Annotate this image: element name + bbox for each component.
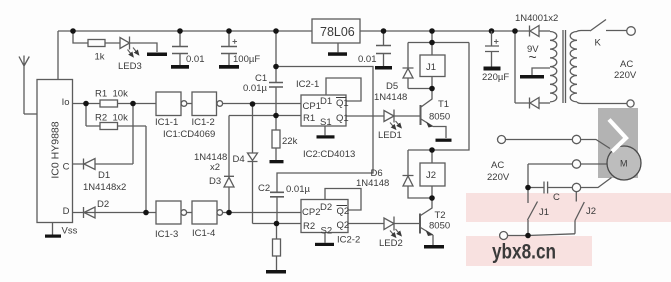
svg-text:IC1:CD4069: IC1:CD4069 — [163, 129, 215, 140]
terminal AC bottom circle — [627, 100, 634, 107]
svg-text:T2: T2 — [435, 210, 446, 221]
node rail-C1 — [273, 28, 279, 34]
node VDD-C1 — [273, 64, 279, 70]
svg-text:M: M — [620, 159, 628, 169]
wire rail to J1 node — [431, 31, 433, 43]
wire Io line — [73, 103, 157, 105]
svg-text:IC2-2: IC2-2 — [337, 235, 360, 246]
svg-text:8050: 8050 — [429, 221, 450, 232]
svg-text:D2: D2 — [320, 202, 332, 213]
capacitor C2 — [270, 192, 284, 197]
node rail-cap1 — [177, 28, 183, 34]
svg-text:CP1: CP1 — [303, 101, 321, 112]
wire top rail right of regulator — [360, 30, 529, 32]
diode D2 — [84, 207, 96, 218]
wire bottom row — [508, 234, 575, 236]
wire C1 bottom to R1 line — [275, 88, 277, 116]
watermark grey box — [598, 108, 638, 178]
terminal motor row2 — [572, 160, 580, 168]
wire IC0 Vss stub — [52, 223, 54, 235]
svg-text:Q2: Q2 — [337, 206, 350, 217]
ground Vss — [45, 235, 61, 238]
node T2 collector — [429, 195, 435, 201]
wire J2 stubs — [431, 150, 433, 198]
svg-text:J1: J1 — [426, 62, 436, 73]
wire row3 cap C — [528, 178, 612, 188]
ground LED3 — [147, 53, 167, 57]
node R2-22k — [274, 221, 280, 227]
wire D4 drop — [252, 104, 254, 224]
capacitor 220uF plus — [494, 39, 499, 43]
wire bottom bridge diode to coil — [539, 102, 550, 104]
wire LED3 to ground — [130, 43, 158, 52]
capacitor 0.01 no.2 — [376, 46, 391, 54]
wire primary bottom to terminal — [577, 102, 627, 104]
ground 22k upper — [270, 160, 284, 163]
node rail-220uF — [489, 28, 495, 34]
svg-text:Q2: Q2 — [337, 220, 350, 231]
svg-text:0.01µ: 0.01µ — [286, 184, 310, 195]
inverter IC1-3 — [156, 201, 181, 224]
inverter IC1-2 — [192, 92, 217, 116]
wire bridge left drop — [515, 31, 529, 103]
wire center tap to ground — [532, 68, 550, 75]
watermark pink band bottom — [466, 236, 592, 266]
wire cap 100uF — [228, 31, 230, 65]
svg-text:Q1: Q1 — [336, 113, 349, 124]
wire right drop to J2 — [432, 43, 469, 151]
wire J1 top line — [408, 42, 469, 44]
svg-text:IC1-2: IC1-2 — [192, 117, 215, 128]
wire VDD link rectangle to C2 — [276, 67, 373, 193]
terminal K circle — [627, 27, 636, 36]
LED2 arrows — [390, 231, 396, 238]
inverter IC1-1 — [156, 92, 181, 116]
LED1 — [384, 110, 394, 123]
transistor T2 base bar — [419, 214, 421, 234]
wire 78L06 ground pin — [337, 43, 339, 52]
wire rail drop to IC0 — [57, 31, 59, 80]
node rail-1k — [70, 28, 76, 34]
svg-text:IC0 HY9888: IC0 HY9888 — [50, 121, 62, 178]
svg-text:C: C — [553, 192, 560, 203]
svg-text:J1: J1 — [539, 207, 549, 218]
wire gate4 to CP2 — [223, 212, 301, 214]
node rail-cap2 — [381, 28, 387, 34]
resistor R2 10k — [100, 123, 118, 130]
wire IC2-2 S2 ground stub — [324, 233, 326, 243]
capacitor C1 — [269, 83, 283, 88]
wire top rail left — [58, 30, 312, 32]
wire K to terminal — [606, 30, 627, 32]
ground S1 — [317, 135, 335, 138]
wire primary top to switch K — [577, 31, 590, 32]
wire 1k branch — [73, 31, 120, 43]
svg-text:10k: 10k — [113, 112, 129, 123]
bridge diode top — [530, 26, 540, 37]
svg-text:R1: R1 — [303, 113, 315, 124]
node Io-R1R2 — [83, 101, 89, 107]
ground 100uF — [219, 65, 239, 69]
wire IC2-1 D1 feedback — [326, 78, 361, 101]
IC0 box — [37, 80, 73, 223]
transistor T1 emitter arrow — [426, 122, 433, 128]
svg-text:D5: D5 — [386, 81, 398, 92]
diode D6 — [403, 176, 414, 187]
wire row2 corner down — [527, 164, 529, 188]
svg-text:J2: J2 — [586, 206, 596, 217]
capacitor C phase — [544, 182, 548, 194]
svg-text:78L06: 78L06 — [320, 25, 355, 39]
svg-text:Q1: Q1 — [336, 98, 349, 109]
node bottom row — [525, 233, 531, 239]
ground cap1 — [171, 65, 189, 69]
svg-text:0.01µ: 0.01µ — [243, 83, 267, 94]
wire T2 emitter — [421, 228, 434, 246]
node rail-100uF — [226, 28, 232, 34]
svg-text:Vss: Vss — [62, 226, 78, 237]
wire T2 collector — [421, 198, 433, 216]
wire antenna to IC0 — [24, 113, 37, 115]
svg-text:IC1-3: IC1-3 — [155, 229, 178, 240]
ground S2 — [315, 243, 334, 246]
transformer secondary coil — [550, 32, 557, 102]
svg-text:D: D — [63, 206, 70, 217]
svg-text:C: C — [63, 162, 70, 173]
wire LED2 line — [348, 223, 420, 225]
LED1 arrows — [390, 123, 396, 130]
chevron watermark — [609, 120, 626, 152]
terminal motor row1 left — [498, 136, 506, 144]
capacitor 100uF — [221, 47, 237, 54]
transistor T2 emitter arrow — [426, 230, 434, 236]
flipflop IC2-1 box — [301, 95, 346, 126]
inverter IC1-4 — [192, 201, 217, 224]
node rail-J1 — [429, 28, 435, 34]
relay coil J1 — [420, 55, 445, 77]
svg-text:S2: S2 — [321, 226, 333, 237]
wire gate3 to gate4 — [187, 212, 192, 214]
svg-text:LED2: LED2 — [379, 238, 403, 249]
svg-text:220V: 220V — [614, 70, 637, 81]
motor circle — [607, 146, 641, 180]
wire D2 line to IC1-3 — [73, 212, 157, 214]
svg-text:1N4148: 1N4148 — [356, 178, 389, 189]
switch K blade — [590, 20, 606, 32]
svg-text:1N4148x2: 1N4148x2 — [83, 182, 126, 193]
wire R1 line corner to D3 — [228, 116, 230, 213]
regulator 78L06 box — [312, 19, 360, 43]
ground 220uF — [484, 67, 501, 71]
wire R2 line to IC2-2 — [253, 223, 302, 225]
diode D4 — [248, 153, 258, 162]
ground cap2 — [375, 66, 392, 70]
flipflop IC2-2 box — [301, 200, 348, 233]
wire J1 stubs — [431, 43, 433, 89]
ground bridge — [520, 75, 544, 79]
svg-text:D1: D1 — [98, 170, 110, 181]
LED3 — [120, 37, 130, 50]
capacitor 0.01 no.1 — [172, 47, 188, 54]
wire gate2 to CP1 — [223, 103, 301, 105]
resistor 22k upper — [272, 130, 280, 148]
antenna — [19, 56, 29, 115]
wire IC2-2 D2 feedback — [325, 189, 361, 211]
svg-text:R1: R1 — [95, 89, 107, 100]
svg-text:T1: T1 — [438, 99, 449, 110]
wire R1 line — [229, 115, 301, 117]
svg-text:IC2-1: IC2-1 — [296, 79, 319, 90]
svg-text:IC1-1: IC1-1 — [155, 117, 178, 128]
wire motor row2 — [528, 163, 607, 165]
ground 78L06 — [328, 52, 347, 56]
transformer core — [563, 30, 566, 103]
wire 22k lower — [276, 224, 278, 271]
svg-text:AC: AC — [620, 59, 633, 70]
svg-text:K: K — [595, 38, 602, 49]
resistor R1 10k — [100, 100, 118, 107]
svg-text:220µF: 220µF — [482, 72, 509, 83]
terminal motor row1 right — [572, 135, 580, 143]
node R1-22k — [273, 113, 279, 119]
wire IC2-1 S1 ground stub — [324, 126, 326, 135]
svg-text:22k: 22k — [282, 136, 298, 147]
svg-text:~: ~ — [529, 49, 537, 65]
ground T1 — [436, 139, 452, 142]
svg-text:D2: D2 — [97, 199, 109, 210]
relay contact J2 — [575, 192, 584, 234]
diode D1 — [84, 159, 96, 170]
svg-text:100µF: 100µF — [233, 54, 260, 65]
svg-text:R2: R2 — [95, 112, 107, 123]
ground T2 — [424, 245, 444, 249]
svg-text:x2: x2 — [210, 162, 220, 173]
terminal bottom left — [500, 232, 508, 240]
svg-text:C2: C2 — [258, 183, 270, 194]
diode D3 — [224, 176, 234, 187]
svg-text:D4: D4 — [233, 154, 245, 165]
node gate4 out — [226, 210, 232, 216]
wire LED1 line — [346, 115, 421, 117]
svg-text:8050: 8050 — [429, 112, 450, 123]
resistor R 1k — [88, 40, 105, 47]
relay coil J2 — [420, 163, 445, 186]
transformer primary coil — [570, 32, 577, 102]
svg-text:LED1: LED1 — [378, 130, 402, 141]
resistor 22k lower — [273, 239, 281, 256]
wire D5 branch — [408, 43, 432, 89]
svg-text:CP2: CP2 — [302, 207, 320, 218]
watermark pink band right — [466, 193, 671, 222]
wire D1 line to gate node — [73, 104, 134, 165]
svg-text:AC: AC — [491, 160, 504, 171]
wire motor row1 — [506, 140, 611, 149]
bridge diode bottom — [530, 98, 540, 109]
terminal motor row3 — [572, 183, 580, 191]
relay contact J1 — [528, 188, 538, 236]
wire rail drop to C1 — [275, 31, 277, 82]
ground 22k lower — [266, 270, 286, 274]
svg-text:S1: S1 — [320, 117, 332, 128]
node R1-D1 — [130, 101, 136, 107]
svg-text:Io: Io — [62, 97, 70, 108]
svg-text:220V: 220V — [487, 172, 510, 183]
svg-text:1N4148: 1N4148 — [374, 92, 407, 103]
svg-text:J2: J2 — [426, 170, 436, 181]
node CP1-D4 — [250, 101, 256, 107]
wire cap 0.01 no.2 — [383, 31, 385, 66]
svg-text:D1: D1 — [320, 96, 332, 107]
wire gate1 to gate2 — [187, 103, 192, 105]
node T1 collector — [429, 86, 435, 92]
capacitor 220uF — [485, 31, 499, 67]
svg-text:1N4001x2: 1N4001x2 — [515, 13, 558, 24]
svg-text:10k: 10k — [113, 89, 129, 100]
wire D6 branch — [408, 150, 432, 198]
wire cap 0.01 no.1 — [179, 31, 181, 65]
svg-text:0.01: 0.01 — [358, 54, 377, 65]
wire T1 collector — [421, 89, 432, 108]
wire R2 path down — [86, 104, 146, 213]
wire C2 bottom to R2 line — [276, 197, 278, 224]
transistor T1 base bar — [420, 105, 422, 125]
diode D5 — [403, 68, 414, 78]
svg-text:IC2:CD4013: IC2:CD4013 — [303, 149, 355, 160]
wire top bridge diode to coil — [539, 30, 550, 32]
node J2 top — [429, 147, 435, 153]
svg-text:R2: R2 — [303, 221, 315, 232]
node D2-R2 — [143, 210, 149, 216]
svg-text:ybx8.cn: ybx8.cn — [492, 240, 556, 264]
LED3 arrows — [128, 50, 134, 57]
wire T1 emitter — [421, 119, 446, 138]
node rail-bridge — [512, 28, 518, 34]
LED2 — [384, 217, 394, 231]
node motor C left — [525, 185, 531, 191]
capacitor 100uF plus sign — [233, 39, 238, 43]
svg-text:LED3: LED3 — [118, 61, 142, 72]
node J1 top — [429, 40, 435, 46]
wire 22k upper — [275, 116, 277, 161]
svg-text:1k: 1k — [95, 52, 105, 63]
svg-text:D3: D3 — [209, 176, 221, 187]
svg-text:IC1-4: IC1-4 — [192, 228, 215, 239]
svg-text:0.01: 0.01 — [186, 54, 205, 65]
